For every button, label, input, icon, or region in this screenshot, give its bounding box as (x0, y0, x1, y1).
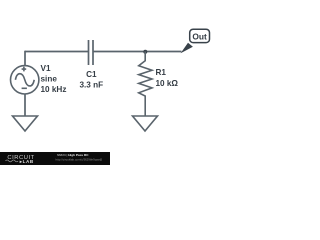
svg-text:Out: Out (192, 31, 207, 41)
capacitor C1 (89, 40, 94, 65)
wire top horizontal left segment (25, 51, 88, 53)
svg-text:10 kHz: 10 kHz (41, 85, 67, 94)
node junction (143, 50, 147, 54)
wire V1 top (24, 51, 26, 66)
svg-text:C1: C1 (86, 70, 97, 79)
wire top horizontal right segment (93, 51, 181, 53)
Out flag tail (181, 43, 193, 54)
resistor R1 (139, 52, 152, 117)
logo wave (6, 160, 19, 162)
ground (R1) (133, 116, 158, 131)
Out flag (190, 29, 210, 42)
svg-text:R1: R1 (156, 68, 167, 77)
svg-text:10 kΩ: 10 kΩ (156, 79, 179, 88)
svg-text:V1: V1 (41, 64, 51, 73)
svg-text:3.3 nF: 3.3 nF (79, 81, 103, 90)
voltage source V1 (11, 66, 39, 94)
ground (V1) (13, 116, 38, 131)
svg-text:▸LAB: ▸LAB (19, 159, 34, 164)
svg-text:sine: sine (41, 75, 58, 84)
footer bar (0, 152, 110, 165)
wire V1 bottom (24, 94, 26, 116)
svg-text:http://circuitlab.com/c/3629bh: http://circuitlab.com/c/3629bh9qwzj5 (56, 157, 103, 161)
